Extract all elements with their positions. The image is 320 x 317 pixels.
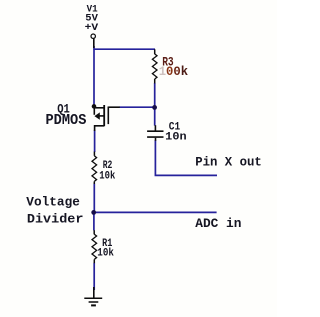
svg-text:PDMOS: PDMOS — [46, 113, 87, 129]
svg-text:100k: 100k — [159, 65, 189, 79]
svg-text:10k: 10k — [97, 247, 114, 259]
svg-text:+V: +V — [85, 23, 99, 34]
svg-text:10n: 10n — [165, 132, 187, 144]
svg-text:10k: 10k — [99, 170, 115, 182]
svg-text:ADC in: ADC in — [195, 216, 241, 231]
svg-text:Divider: Divider — [27, 212, 84, 227]
svg-text:Pin X out: Pin X out — [195, 155, 262, 170]
svg-text:Voltage: Voltage — [26, 195, 80, 210]
